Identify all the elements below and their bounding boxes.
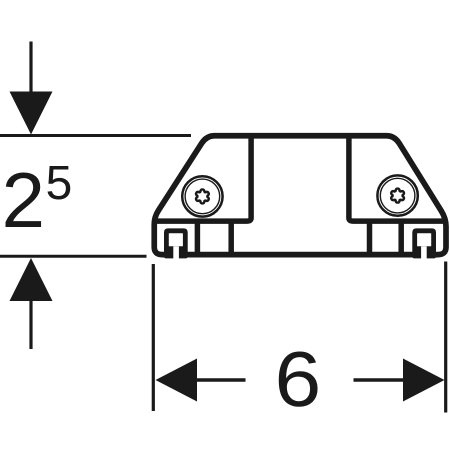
up arrow (2.5 dim, pointing up) (10, 258, 53, 349)
screw right inner ring (380, 178, 415, 213)
right arrow (6 dim, pointing right) (354, 359, 445, 402)
web connector right inner (367, 222, 373, 253)
dimension line lower (lower extent of 2.5 dim) (0, 255, 147, 258)
dimension line top (upper extent of 2.5 dim) (0, 134, 191, 137)
inner wall + shelf right (349, 136, 445, 221)
profile outer contour (154, 136, 446, 255)
label 2^5 (2.5 dimension text) (6, 173, 42, 227)
web connector left outer (195, 222, 201, 253)
extension line left (6 dim) (152, 264, 155, 411)
screw right outer ring (377, 175, 417, 215)
right bottom channel hook (412, 228, 436, 259)
web connector left inner (228, 222, 234, 253)
extension line right (6 dim) (444, 262, 447, 413)
screw left inner ring (185, 179, 220, 214)
down arrow (2.5 dim, pointing down) (10, 42, 53, 135)
web connector right outer (398, 222, 404, 253)
label 6 (width dimension text) (279, 352, 318, 407)
inner wall + shelf left (155, 136, 251, 221)
screw left torx star (196, 189, 209, 203)
left arrow (6 dim, pointing left) (156, 359, 246, 402)
left bottom channel hook (164, 228, 188, 259)
screw right torx star (391, 189, 404, 203)
screw left outer ring (182, 176, 222, 216)
